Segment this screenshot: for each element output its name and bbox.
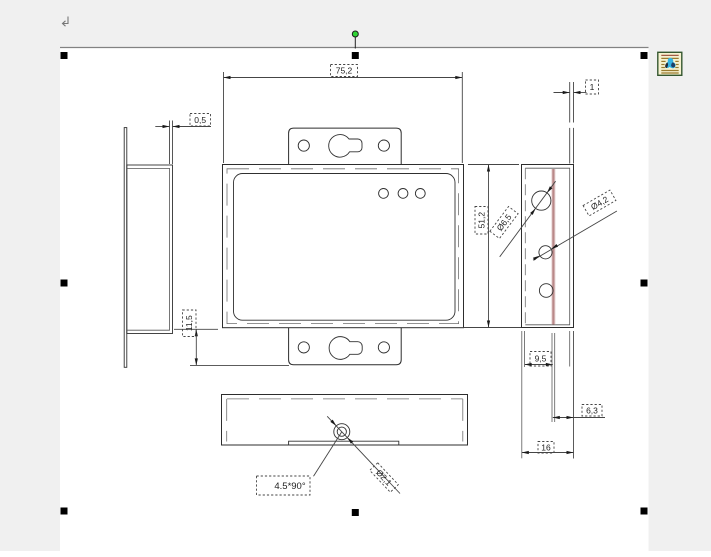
app gray background top band xyxy=(0,0,711,48)
bottom tab keyhole slot xyxy=(329,337,362,360)
side view top hole (6.5) xyxy=(532,191,551,210)
leader 4.5*90 line xyxy=(314,432,342,477)
dimension 0.5 extension lines xyxy=(169,121,171,165)
bottom view hidden edges dashed xyxy=(227,399,463,442)
svg-text:75,2: 75,2 xyxy=(336,66,353,76)
dimension 75.2 extension lines xyxy=(223,72,225,163)
dimension 75.2 line and arrows xyxy=(224,77,463,79)
top tab keyhole slot xyxy=(329,135,362,158)
dimension 16 label xyxy=(538,442,554,454)
bottom tab right hole xyxy=(378,342,389,353)
dimension 1 extension lines xyxy=(570,82,574,164)
text wrap layout icon xyxy=(658,52,682,75)
svg-text:51,2: 51,2 xyxy=(477,212,487,229)
dimension 51.2 label xyxy=(475,207,488,235)
dimension 9.5 line and arrows xyxy=(525,364,553,366)
dimension 16 line and arrows xyxy=(522,452,574,454)
front view indicator hole 3 xyxy=(415,189,425,199)
side view outer outline xyxy=(522,165,574,328)
selection handle bottom-left xyxy=(61,508,68,515)
dimension 11.5 label xyxy=(183,310,197,337)
svg-text:11,5: 11,5 xyxy=(184,315,194,331)
dimension 1 label xyxy=(586,80,599,94)
bottom view hole inner circle xyxy=(337,427,346,436)
selection handle mid-right xyxy=(641,280,648,287)
dimension D6.5 label xyxy=(490,207,518,239)
dimension 1 line and arrows xyxy=(554,92,570,94)
selection rotation handle xyxy=(354,37,356,49)
bottom view mounting tab edge xyxy=(289,441,399,445)
left view body inner wall lines xyxy=(127,168,170,330)
selection handle top-left xyxy=(61,52,68,59)
svg-text:4.5*90°: 4.5*90° xyxy=(274,481,305,492)
dimension 6.3 label xyxy=(582,405,602,417)
selection handle bottom-center xyxy=(352,509,359,516)
dimension 9.5 label xyxy=(530,352,551,367)
svg-text:6,3: 6,3 xyxy=(586,406,598,416)
bottom mounting tab outline xyxy=(289,328,402,365)
leader D2.1 line xyxy=(327,416,400,493)
selection handle bottom-right xyxy=(641,508,648,515)
dimension 75.2 label xyxy=(331,65,358,77)
dimension D4.2 leader line xyxy=(533,211,617,260)
left view body outer outline xyxy=(127,165,173,334)
dimension 11.5 extension lines xyxy=(174,328,218,330)
front view indicator hole 1 xyxy=(379,189,389,199)
front view inner rounded face xyxy=(234,174,456,321)
label D2.1 xyxy=(370,463,399,492)
dimension 51.2 extension lines xyxy=(468,164,519,166)
label 4.5*90 xyxy=(257,476,311,495)
bottom dimensions extension lines xyxy=(522,331,574,459)
top tab left hole xyxy=(298,140,309,151)
svg-text:9,5: 9,5 xyxy=(535,354,547,364)
side view highlighted red edge xyxy=(551,169,555,325)
selection handle top-center xyxy=(352,52,359,59)
CAD drawing group xyxy=(124,65,617,496)
wrap icon dog xyxy=(665,58,675,68)
svg-text:0,5: 0,5 xyxy=(194,115,206,125)
front view indicator hole 2 xyxy=(398,189,408,199)
paragraph return mark xyxy=(63,17,69,27)
svg-text:16: 16 xyxy=(541,442,551,452)
bottom view countersink outer circle xyxy=(334,424,350,440)
svg-text:1: 1 xyxy=(590,82,595,92)
selection handle top-right xyxy=(641,52,648,59)
dimension 0.5 label xyxy=(190,114,211,127)
selection handle mid-left xyxy=(61,280,68,287)
side view bottom hole xyxy=(539,284,553,298)
front view hidden edge dashed rectangle xyxy=(227,169,459,324)
app gray background left column xyxy=(0,48,60,552)
side view middle hole (4.2) xyxy=(539,246,552,259)
dimension D4.2 label xyxy=(583,190,616,216)
bottom view outer outline xyxy=(222,395,468,446)
dimension 6.3 line and arrows xyxy=(553,417,605,419)
dimension 51.2 line and arrows xyxy=(488,165,490,328)
side view inner wall outline xyxy=(525,168,569,325)
dimension 0.5 line and arrows xyxy=(155,126,169,128)
bottom tab left hole xyxy=(298,342,309,353)
front view outer outline xyxy=(223,165,464,328)
top tab right hole xyxy=(378,140,389,151)
left view mounting plate (edge-on) xyxy=(124,128,127,368)
page top border line xyxy=(60,47,649,49)
dimension D6.5 leader line xyxy=(500,181,556,257)
top mounting tab outline xyxy=(289,128,402,165)
dimension 11.5 line and arrows xyxy=(195,329,197,365)
app gray background right column xyxy=(649,48,711,552)
